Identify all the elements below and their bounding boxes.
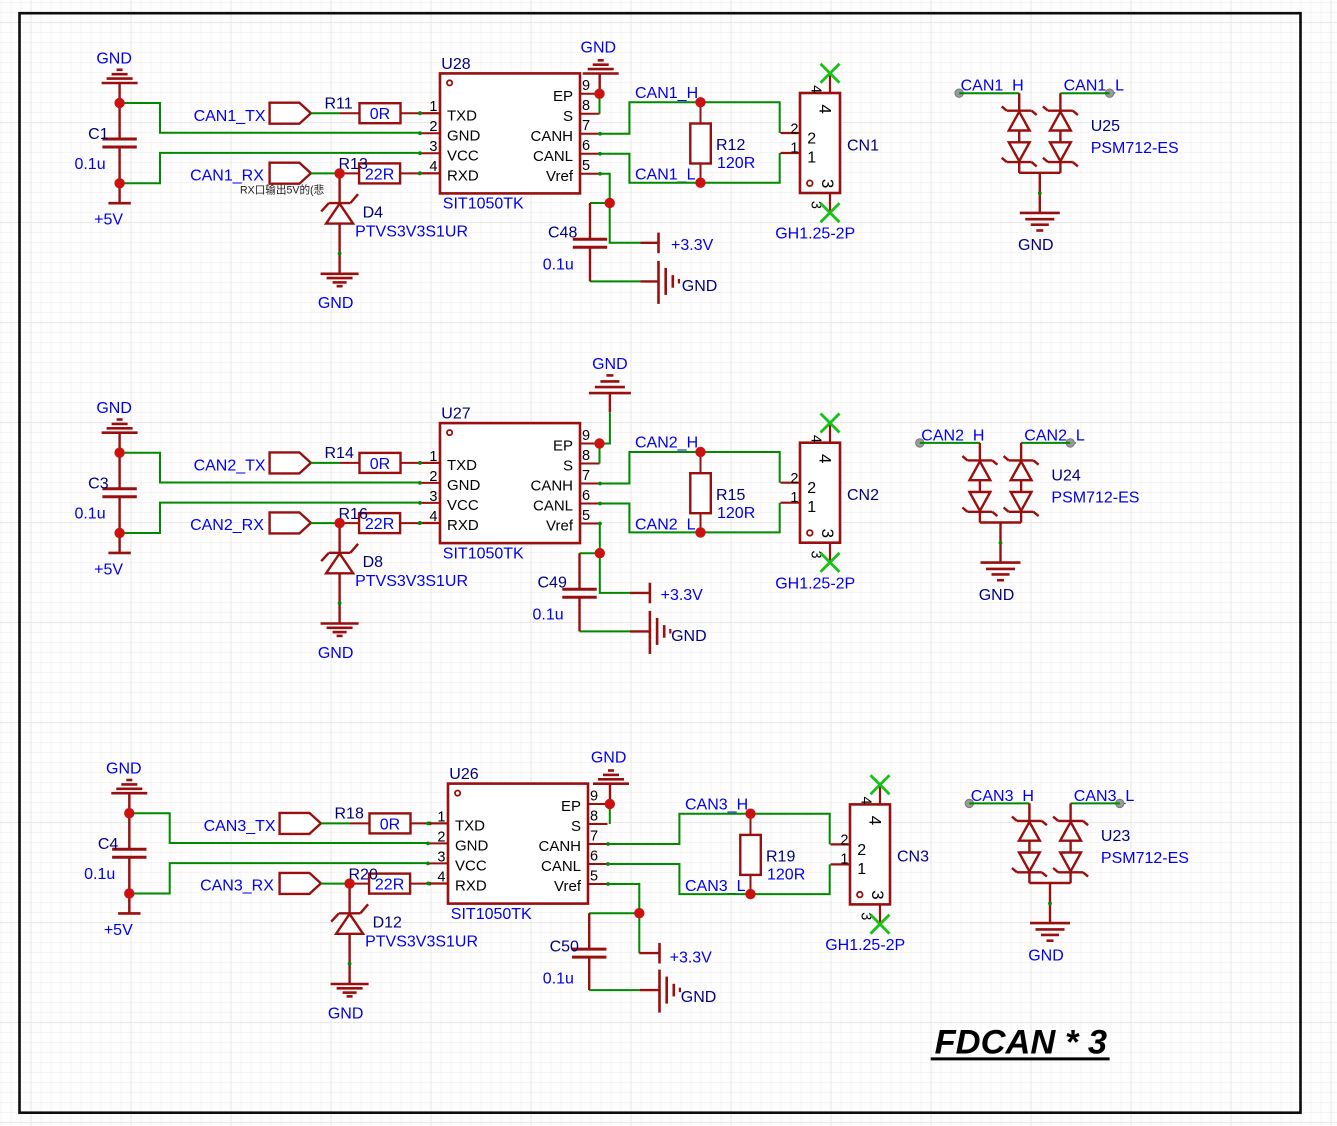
svg-text:R11: R11 xyxy=(325,95,353,112)
ground GND under TVS xyxy=(1028,923,1070,964)
junction xyxy=(334,518,344,528)
wire xyxy=(321,822,350,824)
ground GND under diode xyxy=(328,984,369,1022)
svg-text:0.1u: 0.1u xyxy=(84,866,115,883)
ground GND under diode xyxy=(318,624,359,662)
svg-text:C48: C48 xyxy=(548,224,577,241)
svg-text:+3.3V: +3.3V xyxy=(661,587,704,604)
svg-text:U24: U24 xyxy=(1051,468,1080,485)
svg-text:C49: C49 xyxy=(538,574,567,591)
svg-text:EP: EP xyxy=(553,438,573,455)
no-connect pin 3 xyxy=(821,203,840,222)
diode D12 xyxy=(331,884,478,984)
svg-text:5: 5 xyxy=(590,868,598,884)
svg-text:PSM712-ES: PSM712-ES xyxy=(1051,490,1139,507)
junction xyxy=(695,178,705,188)
pin 4 lead xyxy=(420,172,440,174)
no-connect pin 4 xyxy=(821,64,840,83)
power +5V xyxy=(104,894,141,939)
wire xyxy=(129,863,428,893)
connector CN3 xyxy=(825,785,929,954)
svg-text:R19: R19 xyxy=(766,849,795,866)
power +3.3V xyxy=(641,233,714,254)
svg-text:CN1: CN1 xyxy=(847,137,879,154)
svg-text:CAN2_L: CAN2_L xyxy=(635,516,696,533)
svg-text:CAN2_RX: CAN2_RX xyxy=(190,517,264,534)
svg-text:5: 5 xyxy=(582,158,590,174)
resistor R18 xyxy=(335,806,432,834)
svg-text:FDCAN * 3: FDCAN * 3 xyxy=(935,1024,1108,1062)
wire xyxy=(600,503,780,533)
svg-text:R18: R18 xyxy=(335,806,364,823)
svg-text:0.1u: 0.1u xyxy=(74,156,105,173)
port CAN2_TX xyxy=(270,452,311,473)
ground GND rail C4 xyxy=(106,761,147,814)
svg-text:4: 4 xyxy=(808,435,824,443)
IC U26 xyxy=(426,766,610,923)
junction xyxy=(124,808,134,818)
pad xyxy=(1116,799,1124,807)
svg-text:SIT1050TK: SIT1050TK xyxy=(451,906,532,923)
svg-text:9: 9 xyxy=(582,78,590,94)
ground GND under diode xyxy=(318,274,359,312)
svg-text:1: 1 xyxy=(857,861,866,878)
svg-text:VCC: VCC xyxy=(447,147,479,164)
junction xyxy=(695,527,705,537)
svg-text:C3: C3 xyxy=(88,476,109,493)
svg-text:4: 4 xyxy=(437,869,445,885)
svg-text:CAN3_TX: CAN3_TX xyxy=(204,818,276,835)
wire xyxy=(600,452,780,484)
resistor R16 xyxy=(339,506,422,533)
svg-text:GND: GND xyxy=(581,39,617,56)
wire xyxy=(120,453,420,483)
svg-text:4: 4 xyxy=(858,797,874,805)
svg-text:+3.3V: +3.3V xyxy=(671,237,714,254)
no-connect pin 4 xyxy=(871,775,890,794)
svg-text:Vref: Vref xyxy=(546,518,574,535)
wire xyxy=(600,102,780,134)
wire xyxy=(600,412,610,443)
svg-text:GND: GND xyxy=(328,1005,364,1022)
wire xyxy=(589,912,639,914)
wire xyxy=(608,814,830,845)
svg-text:2: 2 xyxy=(437,829,445,845)
text annotation xyxy=(240,183,325,196)
svg-text:GND: GND xyxy=(106,761,142,778)
svg-text:9: 9 xyxy=(582,428,590,444)
svg-text:CAN2_H: CAN2_H xyxy=(921,427,984,444)
svg-text:2: 2 xyxy=(857,842,866,859)
pin 1 lead xyxy=(420,462,440,464)
svg-text:S: S xyxy=(563,458,573,475)
svg-text:U25: U25 xyxy=(1091,118,1120,135)
connector CN1 xyxy=(775,73,879,242)
junction xyxy=(344,878,354,888)
IC U28 xyxy=(418,56,602,213)
svg-text:C4: C4 xyxy=(98,836,119,853)
svg-text:3: 3 xyxy=(429,489,437,505)
title FDCAN * 3 xyxy=(931,1024,1110,1062)
svg-text:CAN1_L: CAN1_L xyxy=(1064,78,1125,95)
svg-text:TXD: TXD xyxy=(447,457,477,474)
net label CAN2_H (TVS) xyxy=(921,427,984,444)
svg-text:CAN3_L: CAN3_L xyxy=(685,878,746,895)
svg-text:PTVS3V3S1UR: PTVS3V3S1UR xyxy=(355,573,468,590)
net label CAN2_TX xyxy=(194,458,266,475)
svg-text:0R: 0R xyxy=(370,106,390,123)
svg-text:GND: GND xyxy=(671,628,707,645)
svg-text:7: 7 xyxy=(582,468,590,484)
svg-text:GND: GND xyxy=(1028,947,1064,964)
TVS U23 xyxy=(1012,803,1189,923)
wire xyxy=(600,524,630,593)
wire xyxy=(589,989,640,991)
wire xyxy=(129,813,428,843)
svg-text:PTVS3V3S1UR: PTVS3V3S1UR xyxy=(365,934,478,951)
ground GND (IEC) xyxy=(630,611,707,654)
resistor R19 xyxy=(740,814,805,894)
wire xyxy=(590,280,641,282)
resistor R20 xyxy=(349,866,432,893)
svg-text:CANH: CANH xyxy=(538,838,581,855)
junction xyxy=(695,447,705,457)
wire xyxy=(311,522,340,524)
capacitor C49 xyxy=(533,553,597,631)
TVS U24 xyxy=(962,443,1139,563)
pin 1 lead xyxy=(428,822,448,824)
svg-text:SIT1050TK: SIT1050TK xyxy=(443,196,524,213)
svg-text:PSM712-ES: PSM712-ES xyxy=(1101,850,1189,867)
svg-text:VCC: VCC xyxy=(447,497,479,514)
net label CAN3_TX xyxy=(204,818,276,835)
svg-text:2: 2 xyxy=(429,119,437,135)
wire xyxy=(600,174,641,243)
svg-text:Vref: Vref xyxy=(546,168,574,185)
ground GND rail C1 xyxy=(96,50,137,103)
svg-text:CAN3_RX: CAN3_RX xyxy=(200,878,274,895)
wire xyxy=(959,92,1019,94)
svg-text:CANL: CANL xyxy=(541,858,581,875)
svg-text:R15: R15 xyxy=(716,487,745,504)
ground GND at pin 9 xyxy=(581,39,619,89)
svg-text:GND: GND xyxy=(979,587,1015,604)
wire xyxy=(311,172,340,174)
svg-text:22R: 22R xyxy=(365,166,394,183)
wire xyxy=(599,94,601,114)
svg-text:CANH: CANH xyxy=(530,128,573,145)
pad xyxy=(1105,89,1113,97)
wire xyxy=(311,462,340,464)
svg-text:D12: D12 xyxy=(373,915,402,932)
svg-text:CANL: CANL xyxy=(533,148,573,165)
net label CAN3_L xyxy=(685,878,746,895)
junction xyxy=(594,438,604,448)
pin 1 lead xyxy=(420,112,440,114)
wire xyxy=(580,630,631,632)
svg-text:PTVS3V3S1UR: PTVS3V3S1UR xyxy=(355,223,468,240)
svg-text:4: 4 xyxy=(429,159,437,175)
svg-text:RXD: RXD xyxy=(455,878,487,895)
power +3.3V xyxy=(639,943,712,966)
junction xyxy=(634,908,644,918)
resistor R11 xyxy=(325,95,422,123)
junction xyxy=(124,888,134,898)
svg-text:6: 6 xyxy=(582,138,590,154)
net label CAN1_H (TVS) xyxy=(961,78,1024,95)
connector CN2 xyxy=(775,423,879,592)
svg-text:8: 8 xyxy=(582,98,590,114)
port CAN2_RX xyxy=(270,512,311,533)
resistor R14 xyxy=(325,445,422,473)
svg-text:GND: GND xyxy=(96,400,132,417)
power +5V xyxy=(94,533,131,578)
wire xyxy=(599,444,601,464)
svg-text:GND: GND xyxy=(455,838,489,855)
resistor R13 xyxy=(339,156,422,183)
TVS U25 xyxy=(1002,93,1179,213)
capacitor C3 xyxy=(74,453,136,533)
net label CAN1_L xyxy=(635,167,696,184)
svg-text:U23: U23 xyxy=(1101,828,1130,845)
svg-text:+5V: +5V xyxy=(94,212,123,229)
junction xyxy=(745,809,755,819)
svg-text:3: 3 xyxy=(437,849,445,865)
svg-text:RX口输出5V的(悲: RX口输出5V的(悲 xyxy=(240,183,325,196)
svg-text:CN3: CN3 xyxy=(897,849,929,866)
diode D8 xyxy=(321,523,468,623)
wire xyxy=(321,883,350,885)
power +3.3V xyxy=(630,583,703,604)
svg-text:CAN2_L: CAN2_L xyxy=(1024,427,1085,444)
svg-text:1: 1 xyxy=(437,809,445,825)
svg-text:Vref: Vref xyxy=(554,878,582,895)
capacitor C4 xyxy=(84,813,146,893)
no-connect pin 3 xyxy=(821,553,840,572)
junction xyxy=(334,168,344,178)
diode D4 xyxy=(321,173,468,273)
svg-text:GH1.25-2P: GH1.25-2P xyxy=(775,226,855,243)
no-connect pin 4 xyxy=(821,414,840,433)
svg-text:1: 1 xyxy=(807,499,816,516)
net label CAN1_RX xyxy=(190,167,264,184)
net label CAN3_L (TVS) xyxy=(1074,788,1135,805)
junction xyxy=(114,528,124,538)
pad xyxy=(965,799,973,807)
svg-text:CAN1_TX: CAN1_TX xyxy=(194,108,266,125)
capacitor C48 xyxy=(543,203,608,281)
svg-text:8: 8 xyxy=(590,808,598,824)
svg-text:S: S xyxy=(571,818,581,835)
svg-text:2: 2 xyxy=(790,121,798,137)
port CAN3_TX xyxy=(280,813,321,834)
svg-text:1: 1 xyxy=(429,449,437,465)
svg-text:6: 6 xyxy=(590,848,598,864)
wire xyxy=(920,442,980,444)
svg-text:120R: 120R xyxy=(767,867,805,884)
pad xyxy=(955,89,963,97)
port CAN1_RX xyxy=(270,163,311,184)
svg-text:VCC: VCC xyxy=(455,858,487,875)
svg-text:3: 3 xyxy=(818,529,837,538)
wire xyxy=(608,884,639,953)
svg-text:GND: GND xyxy=(447,127,481,144)
svg-text:RXD: RXD xyxy=(447,517,479,534)
svg-text:EP: EP xyxy=(561,798,581,815)
svg-text:2: 2 xyxy=(807,130,816,147)
svg-text:CAN1_L: CAN1_L xyxy=(635,167,696,184)
svg-text:4: 4 xyxy=(865,816,884,825)
net label CAN1_L (TVS) xyxy=(1064,78,1125,95)
svg-text:1: 1 xyxy=(807,149,816,166)
wire xyxy=(120,153,420,183)
junction xyxy=(114,448,124,458)
ground GND under TVS xyxy=(979,563,1021,604)
svg-text:SIT1050TK: SIT1050TK xyxy=(443,545,524,562)
svg-text:2: 2 xyxy=(429,469,437,485)
svg-text:GND: GND xyxy=(318,645,354,662)
junction xyxy=(745,889,755,899)
wire xyxy=(580,552,600,554)
svg-text:GND: GND xyxy=(591,750,627,767)
svg-text:GND: GND xyxy=(1018,237,1054,254)
svg-text:CAN3_L: CAN3_L xyxy=(1074,788,1135,805)
wire xyxy=(608,864,830,894)
net label CAN1_H xyxy=(635,85,698,102)
svg-text:3: 3 xyxy=(868,890,887,899)
wire xyxy=(600,153,780,183)
svg-text:U26: U26 xyxy=(449,766,478,783)
svg-text:U27: U27 xyxy=(441,406,470,423)
svg-text:4: 4 xyxy=(815,104,834,113)
svg-text:9: 9 xyxy=(590,788,598,804)
svg-text:7: 7 xyxy=(582,118,590,134)
svg-text:TXD: TXD xyxy=(455,818,485,835)
ground GND (IEC) xyxy=(640,970,717,1013)
svg-text:RXD: RXD xyxy=(447,167,479,184)
svg-text:0R: 0R xyxy=(380,816,400,833)
pin 4 lead xyxy=(420,522,440,524)
svg-text:R12: R12 xyxy=(716,137,745,154)
capacitor C1 xyxy=(74,103,136,183)
svg-text:CAN2_TX: CAN2_TX xyxy=(194,458,266,475)
svg-text:22R: 22R xyxy=(375,877,404,894)
svg-text:C50: C50 xyxy=(550,938,579,955)
wire xyxy=(120,103,420,133)
svg-text:GND: GND xyxy=(682,278,718,295)
svg-text:1: 1 xyxy=(429,99,437,115)
wire xyxy=(1071,802,1120,804)
svg-text:0.1u: 0.1u xyxy=(543,971,574,988)
wire xyxy=(1060,92,1109,94)
svg-text:6: 6 xyxy=(582,488,590,504)
svg-text:0.1u: 0.1u xyxy=(74,506,105,523)
power +5V xyxy=(94,183,131,228)
svg-text:2: 2 xyxy=(807,480,816,497)
svg-text:2: 2 xyxy=(790,471,798,487)
svg-text:TXD: TXD xyxy=(447,107,477,124)
svg-text:GND: GND xyxy=(318,295,354,312)
svg-text:22R: 22R xyxy=(365,516,394,533)
capacitor C50 xyxy=(543,913,607,990)
wire xyxy=(969,802,1029,804)
svg-text:CANL: CANL xyxy=(533,498,573,515)
svg-text:1: 1 xyxy=(790,140,798,156)
net label CAN1_TX xyxy=(194,108,266,125)
svg-text:8: 8 xyxy=(582,448,590,464)
wire xyxy=(311,112,340,114)
svg-text:120R: 120R xyxy=(717,155,755,172)
ground GND at pin 9 xyxy=(591,750,629,800)
svg-text:7: 7 xyxy=(590,828,598,844)
port CAN1_TX xyxy=(270,103,311,124)
svg-text:+5V: +5V xyxy=(104,922,133,939)
resistor R15 xyxy=(690,452,755,532)
svg-text:R14: R14 xyxy=(325,445,354,462)
svg-text:+3.3V: +3.3V xyxy=(670,949,713,966)
net label CAN3_H xyxy=(685,796,748,813)
ground GND under TVS xyxy=(1018,213,1060,254)
net label CAN2_RX xyxy=(190,517,264,534)
junction xyxy=(605,799,615,809)
svg-text:PSM712-ES: PSM712-ES xyxy=(1091,140,1179,157)
svg-text:U28: U28 xyxy=(441,56,470,73)
net label CAN2_H xyxy=(635,435,698,452)
svg-text:3: 3 xyxy=(818,179,837,188)
junction xyxy=(114,98,124,108)
svg-text:EP: EP xyxy=(553,88,573,105)
svg-text:4: 4 xyxy=(429,509,437,525)
svg-text:CAN1_H: CAN1_H xyxy=(635,85,698,102)
svg-text:CN2: CN2 xyxy=(847,487,879,504)
resistor R12 xyxy=(690,102,755,182)
junction xyxy=(695,97,705,107)
svg-text:CAN1_H: CAN1_H xyxy=(961,78,1024,95)
svg-text:C1: C1 xyxy=(88,126,109,143)
svg-text:2: 2 xyxy=(840,833,848,849)
svg-text:5: 5 xyxy=(582,508,590,524)
svg-text:GND: GND xyxy=(681,989,717,1006)
svg-text:CAN3_H: CAN3_H xyxy=(685,796,748,813)
junction xyxy=(605,198,615,208)
wire xyxy=(590,202,610,204)
svg-text:1: 1 xyxy=(790,490,798,506)
svg-text:GND: GND xyxy=(96,50,132,67)
pad xyxy=(1066,439,1074,447)
svg-text:3: 3 xyxy=(429,139,437,155)
ground GND (IEC) xyxy=(641,261,718,304)
svg-text:4: 4 xyxy=(808,85,824,93)
svg-text:GND: GND xyxy=(447,477,481,494)
ground GND at pin 9 xyxy=(589,356,631,412)
net label CAN3_RX xyxy=(200,878,274,895)
pin 4 lead xyxy=(428,883,448,885)
junction xyxy=(595,548,605,558)
svg-text:0.1u: 0.1u xyxy=(533,607,564,624)
wire xyxy=(1021,442,1070,444)
svg-text:CANH: CANH xyxy=(530,478,573,495)
svg-text:+5V: +5V xyxy=(94,561,123,578)
net label CAN2_L xyxy=(635,516,696,533)
svg-text:120R: 120R xyxy=(717,505,755,522)
wire xyxy=(120,503,420,533)
svg-text:S: S xyxy=(563,108,573,125)
pad xyxy=(916,439,924,447)
svg-text:4: 4 xyxy=(815,454,834,463)
net label CAN3_H (TVS) xyxy=(971,788,1034,805)
ground GND rail C3 xyxy=(96,400,137,453)
IC U27 xyxy=(418,406,602,563)
